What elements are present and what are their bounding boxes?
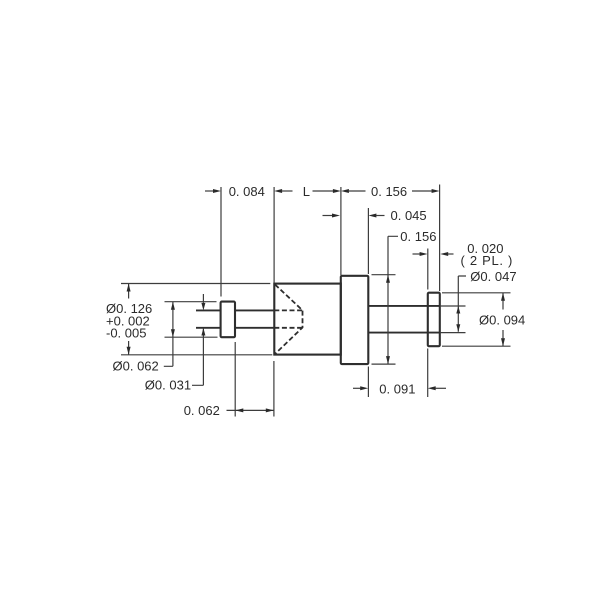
svg-text:0. 062: 0. 062 [184, 403, 220, 418]
extension lines vertical [221, 185, 440, 417]
svg-text:0. 156: 0. 156 [371, 184, 407, 199]
dimension 0.156 top [341, 184, 440, 199]
right pin [368, 306, 440, 333]
extension lines horizontal [121, 275, 511, 364]
dimension dia 0.126 with tolerances [106, 284, 152, 355]
left flange [221, 302, 235, 338]
dimension dia 0.062 flange OD (hooked leader) [113, 302, 175, 374]
dimension 0.091 [353, 381, 446, 396]
large flange [341, 276, 369, 364]
dimension dia 0.047 (hooked leader) [456, 269, 516, 332]
dimension dia 0.031 pin (hooked leader) [145, 294, 206, 393]
svg-text:0. 084: 0. 084 [229, 184, 265, 199]
svg-text:Ø0. 094: Ø0. 094 [479, 312, 525, 327]
hidden cone (dashed) [275, 285, 303, 355]
small right flange [428, 293, 440, 347]
svg-text:( 2 PL. ): ( 2 PL. ) [461, 253, 514, 268]
svg-text:L: L [303, 184, 310, 199]
dimension dia 0.094 [479, 293, 525, 346]
svg-text:Ø0. 031: Ø0. 031 [145, 378, 191, 393]
svg-text:0. 091: 0. 091 [379, 381, 415, 396]
dimension 0.156 flange OD (vertical, hooked text) [386, 229, 436, 364]
dimension 0.045 [323, 208, 427, 223]
main body [274, 284, 341, 355]
svg-text:-0. 005: -0. 005 [106, 326, 146, 341]
svg-text:Ø0. 047: Ø0. 047 [470, 269, 516, 284]
svg-text:0. 045: 0. 045 [391, 208, 427, 223]
dimension 0.062 gap [184, 403, 274, 418]
dimension L [274, 184, 341, 199]
dimension 0.020 (2 PL.) [413, 241, 514, 268]
svg-text:0. 156: 0. 156 [400, 229, 436, 244]
dimension 0.084 [205, 184, 265, 199]
svg-text:Ø0. 062: Ø0. 062 [113, 359, 159, 374]
hidden pin lines inside body (dashed) [274, 310, 302, 327]
left pin [196, 310, 274, 327]
